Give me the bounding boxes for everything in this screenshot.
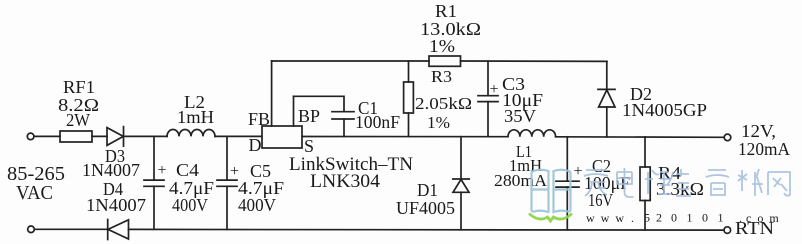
capacitor C3 (487, 61, 489, 95)
diode D1 (460, 137, 462, 179)
capacitor C4 (153, 136, 155, 180)
resistor RF1 (60, 131, 92, 142)
svg-text:R1: R1 (435, 1, 457, 21)
svg-text:1%: 1% (429, 36, 455, 56)
capacitor C1 (332, 111, 354, 113)
svg-text:com: com (746, 211, 785, 225)
svg-text:1%: 1% (427, 113, 450, 132)
terminal input top (27, 133, 34, 140)
capacitor C2 (566, 137, 568, 181)
wire D3 to L2 (124, 135, 168, 137)
inductor L2 (167, 129, 215, 136)
svg-text:120mA: 120mA (738, 139, 790, 159)
wire R1 to D2 (461, 60, 608, 62)
svg-text:C4: C4 (176, 160, 199, 180)
svg-text:12V,: 12V, (741, 121, 776, 141)
wire FB pin (271, 61, 273, 126)
svg-text:UF4005: UF4005 (396, 198, 455, 218)
svg-text:RF1: RF1 (63, 77, 95, 97)
wire BP pin (293, 96, 295, 126)
svg-text:1mH: 1mH (177, 107, 214, 127)
watermark url (586, 211, 785, 226)
wire L2 to IC (215, 135, 262, 137)
svg-text:+: + (574, 163, 583, 180)
op-amp U1 LinkSwitch-TN LNK304 body (262, 126, 302, 148)
svg-text:.: . (739, 211, 742, 225)
svg-text:+: + (490, 81, 499, 98)
terminal output 12V (724, 134, 731, 141)
resistor R3 (408, 61, 410, 82)
svg-text:.: . (631, 211, 634, 225)
diode D4 (107, 220, 109, 240)
wire L1 to output (556, 136, 724, 139)
diode D2 (598, 88, 615, 90)
svg-text:0101: 0101 (671, 211, 733, 225)
wire bottom rail right (129, 228, 724, 231)
svg-text:D: D (249, 135, 262, 155)
watermark logo book icon (532, 170, 571, 212)
terminal input bottom (28, 226, 35, 233)
wire RF1 to D3 (92, 135, 107, 137)
svg-text:FB: FB (248, 109, 270, 129)
wire bottom rail left (35, 228, 108, 230)
svg-text:35V: 35V (504, 106, 536, 126)
svg-text:1N4007: 1N4007 (82, 160, 140, 180)
svg-text:BP: BP (298, 106, 320, 126)
wire S rail (302, 136, 508, 138)
svg-text:52: 52 (644, 211, 668, 225)
svg-text:VAC: VAC (16, 182, 53, 204)
svg-text:S: S (304, 136, 314, 156)
wire FB top rail (272, 60, 429, 62)
svg-text:www: www (586, 211, 630, 225)
capacitor C5 (226, 136, 228, 180)
terminal output RTN (724, 227, 731, 234)
svg-text:16V: 16V (588, 190, 613, 210)
svg-text:1N4005GP: 1N4005GP (622, 100, 707, 120)
svg-text:2W: 2W (66, 110, 90, 130)
svg-text:400V: 400V (238, 195, 276, 215)
resistor R4 (644, 137, 646, 167)
watermark logo green ribbon (529, 214, 572, 222)
watermark chinese characters (584, 168, 790, 197)
svg-text:LNK304: LNK304 (310, 171, 381, 192)
svg-text:280mA: 280mA (494, 171, 548, 190)
wire D2 drop (606, 61, 608, 89)
diode D3 (107, 128, 123, 146)
svg-text:100nF: 100nF (355, 112, 400, 132)
svg-text:R3: R3 (431, 67, 452, 86)
svg-text:+: + (158, 162, 167, 179)
inductor L1 (508, 130, 556, 137)
svg-text:400V: 400V (172, 195, 208, 215)
svg-text:1N4007: 1N4007 (86, 195, 146, 215)
wire top rail input segment (34, 135, 60, 137)
svg-text:D1: D1 (417, 180, 438, 200)
svg-text:2.05kΩ: 2.05kΩ (415, 94, 472, 113)
wire BP loop top (294, 96, 345, 111)
resistor R1 (429, 56, 461, 66)
